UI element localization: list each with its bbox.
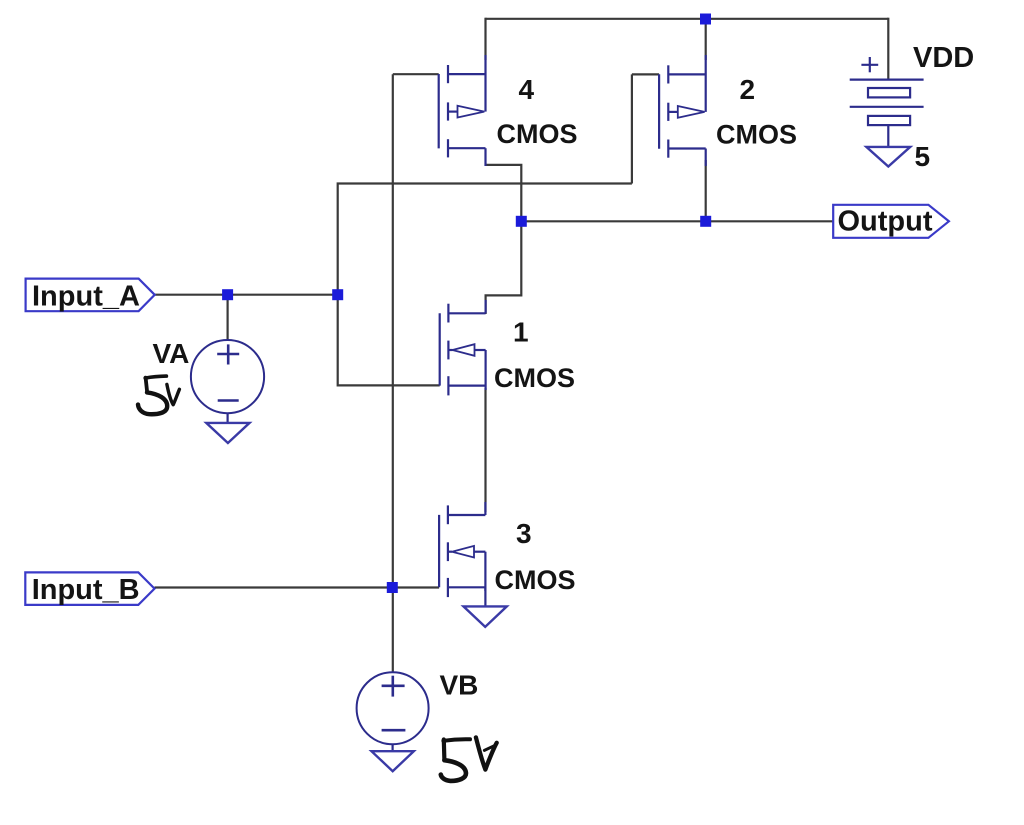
flag Input_A [26, 279, 155, 312]
svg-text:Input_A: Input_A [32, 281, 140, 313]
junction node Input_B VB [387, 582, 398, 593]
transistor M4 (PMOS) [439, 55, 486, 166]
svg-text:Output: Output [838, 206, 933, 238]
wire Input_B horizontal [155, 586, 440, 588]
svg-text:3: 3 [516, 518, 532, 549]
wire Input_A horizontal [155, 294, 338, 296]
flag Input_B [25, 572, 154, 605]
wire M2 gate lead [632, 73, 659, 75]
wire M1 source to M3 drain [484, 388, 486, 512]
junction node Input_A gate [332, 289, 343, 300]
wire output horizontal [521, 220, 833, 222]
svg-text:4: 4 [519, 74, 535, 105]
wire M2 gate down [631, 74, 633, 183]
svg-text:5: 5 [915, 141, 931, 172]
svg-text:VA: VA [153, 338, 190, 369]
transistor M3 (NMOS) [439, 502, 485, 597]
svg-text:VB: VB [440, 670, 479, 701]
svg-text:CMOS: CMOS [497, 119, 578, 149]
wire M4 drain jog to output node [486, 165, 522, 314]
wire M3 source to ground [484, 587, 486, 606]
ground under VB [372, 751, 414, 771]
wire battery top lead [887, 18, 889, 80]
voltage source VA [191, 340, 264, 413]
voltage source VB [357, 672, 429, 744]
svg-text:CMOS: CMOS [494, 363, 575, 393]
wire Input_B vertical (M4 gate to VB) [392, 74, 394, 672]
ground under VA [206, 423, 249, 443]
transistor M1 (NMOS) [440, 300, 486, 395]
battery VDD [850, 57, 924, 147]
junction node output at M4 [516, 216, 527, 227]
wire VDD top rail [486, 18, 889, 20]
wire M2 drain to output node [705, 160, 707, 221]
ground under M3 [464, 606, 507, 627]
junction node output at M2 [700, 216, 711, 227]
ground under battery [866, 147, 910, 167]
junction node Input_A VA [222, 289, 233, 300]
wire VB bottom lead [392, 744, 394, 751]
wire VA bottom lead [227, 413, 229, 423]
wire M2 source to rail [705, 18, 707, 60]
transistor M2 (PMOS) [659, 55, 706, 166]
svg-text:VDD: VDD [913, 42, 974, 74]
svg-text:CMOS: CMOS [716, 120, 797, 150]
junction node top rail [700, 14, 711, 25]
svg-text:CMOS: CMOS [495, 565, 576, 595]
svg-text:2: 2 [740, 74, 756, 105]
svg-text:1: 1 [513, 317, 529, 348]
wire M4 source to rail [484, 18, 486, 60]
wire M4 gate lead [393, 73, 439, 75]
svg-text:Input_B: Input_B [32, 574, 140, 606]
wire VA top lead [227, 295, 229, 341]
flag Output [833, 205, 949, 238]
handwritten 5v annotation for VA [138, 376, 179, 414]
handwritten 5V annotation for VB [441, 737, 497, 781]
wire Input_A cross link [338, 184, 632, 386]
